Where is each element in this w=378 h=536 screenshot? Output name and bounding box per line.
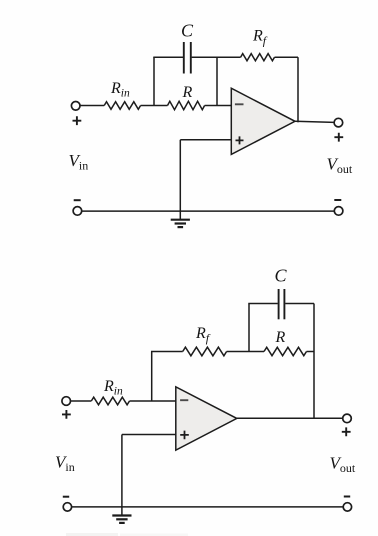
- terminal T2 (top output): [334, 118, 343, 127]
- resistor Rf (bottom): [183, 347, 227, 356]
- minus polarity (top rail right): [334, 199, 341, 201]
- wire: bottom rail (bottom circuit): [72, 506, 344, 508]
- resistor Rf (top): [241, 54, 275, 61]
- wire: node A up to capacitor branch: [153, 57, 155, 105]
- plus polarity (bottom output): [342, 427, 351, 436]
- svg-text:R: R: [275, 329, 286, 346]
- wire: ground branch vertical (top): [179, 140, 181, 211]
- terminal T7 (bottom rail left): [63, 503, 71, 511]
- svg-text:Vin: Vin: [55, 453, 75, 475]
- minus polarity (bottom rail right): [344, 496, 350, 498]
- wire: cap branch right segment to node B: [192, 56, 217, 58]
- resistor R (bottom): [264, 347, 307, 355]
- wire: non-inverting input stub: [180, 139, 231, 141]
- terminal T6 (bottom output): [343, 414, 352, 423]
- wire: Rin to R (through node A): [141, 105, 168, 107]
- wire: feedback vertical down to output (bottom): [313, 304, 315, 419]
- wire: node D vertical up to capacitor branch: [248, 304, 250, 352]
- op-amp U2 non-inverting pin mark: [180, 431, 189, 440]
- svg-text:Vout: Vout: [330, 454, 356, 476]
- wire: node B to Rf: [217, 56, 241, 58]
- svg-text:C: C: [275, 266, 288, 286]
- wire: Rf to R (through node D): [227, 351, 264, 353]
- ground symbol (top): [179, 211, 181, 219]
- op-amp U1 (top): [231, 88, 295, 154]
- terminal T1 (top input): [71, 102, 80, 111]
- wire: ground branch vertical (bottom): [121, 435, 123, 508]
- svg-text:C: C: [181, 21, 194, 41]
- ground symbol (bottom): [121, 507, 123, 515]
- terminal T5 (bottom input): [62, 397, 71, 406]
- svg-text:R: R: [182, 84, 193, 101]
- svg-text:Rin: Rin: [110, 80, 130, 100]
- wire: Rin to op-amp inverting input (through node C): [130, 400, 177, 402]
- wire: bottom input terminal to Rin: [71, 400, 92, 402]
- op-amp U2 (bottom): [176, 387, 237, 450]
- wire: cap branch left segment (bottom): [248, 303, 277, 305]
- minus polarity (top rail left): [74, 199, 81, 201]
- plus polarity (bottom input): [62, 410, 71, 419]
- svg-text:Vin: Vin: [69, 151, 89, 173]
- wire: node B vertical down to main line: [216, 57, 218, 105]
- wire: top input terminal to Rin: [80, 105, 104, 107]
- op-amp U2 inverting pin mark: [180, 399, 188, 401]
- op-amp U1 inverting pin mark: [235, 103, 244, 105]
- svg-text:Rin: Rin: [103, 378, 123, 398]
- plus polarity (top output): [334, 133, 343, 142]
- wire: bottom rail (top circuit): [82, 210, 334, 212]
- svg-text:Rf: Rf: [195, 325, 211, 345]
- resistor R (top): [168, 101, 205, 109]
- wire: op-amp output to terminal: [295, 121, 334, 122]
- svg-text:Vout: Vout: [327, 155, 353, 177]
- wire: op-amp output to terminal (bottom): [237, 417, 343, 419]
- faint cropped caption ghost: [66, 533, 118, 536]
- resistor Rin (top): [104, 102, 140, 110]
- op-amp U1 non-inverting pin mark: [236, 136, 244, 144]
- terminal T3 (top rail left): [73, 207, 82, 216]
- wire: Rf to right feedback corner: [275, 56, 299, 58]
- svg-text:Rf: Rf: [252, 28, 268, 48]
- wire: cap branch left segment: [153, 56, 183, 58]
- wire: feedback vertical down to output: [297, 57, 299, 122]
- wire: cap branch right segment (bottom): [285, 303, 314, 305]
- terminal T4 (top rail right): [334, 207, 343, 216]
- resistor Rin (bottom): [91, 397, 129, 405]
- minus polarity (bottom rail left): [63, 496, 69, 498]
- wire: non-inverting input stub (bottom): [122, 434, 176, 436]
- wire: node C vertical up to feedback row: [151, 352, 153, 402]
- wire: R to right feedback corner (bottom): [307, 351, 315, 353]
- wire: feedback row left segment to Rf: [151, 351, 183, 353]
- plus polarity (top input): [73, 116, 82, 125]
- wire: R to op-amp inverting input (through node B): [205, 105, 232, 107]
- capacitor C (bottom) plates: [278, 289, 280, 319]
- terminal T8 (bottom rail right): [343, 503, 351, 511]
- capacitor C (top) plates: [183, 42, 185, 74]
